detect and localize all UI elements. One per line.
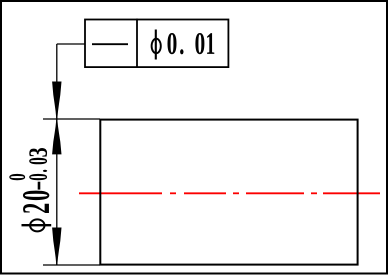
dimension line — [56, 119, 58, 265]
dimension arrow (up) — [52, 119, 61, 154]
leader arrow (down) — [52, 82, 61, 119]
dimension arrow (down) — [52, 228, 61, 265]
tolerance value 0.01 — [167, 33, 214, 54]
upper deviation 0 — [9, 174, 25, 180]
feature control frame — [85, 20, 228, 68]
dimension text: phi 20 0/-0.03 — [9, 148, 51, 231]
diameter symbol of dimension — [21, 219, 51, 231]
value 20 — [23, 204, 49, 213]
part outline rectangle — [100, 120, 357, 265]
straightness symbol — [92, 43, 128, 45]
feature control frame divider — [136, 19, 138, 67]
diameter symbol of tolerance — [152, 30, 161, 60]
lower deviation -0.03 — [38, 182, 41, 190]
centerline (red dash-dot axis) — [79, 192, 380, 194]
extension line top — [43, 118, 100, 120]
extension line bottom — [43, 264, 100, 266]
leader line horizontal segment — [57, 43, 85, 45]
leader line vertical segment — [56, 44, 58, 119]
